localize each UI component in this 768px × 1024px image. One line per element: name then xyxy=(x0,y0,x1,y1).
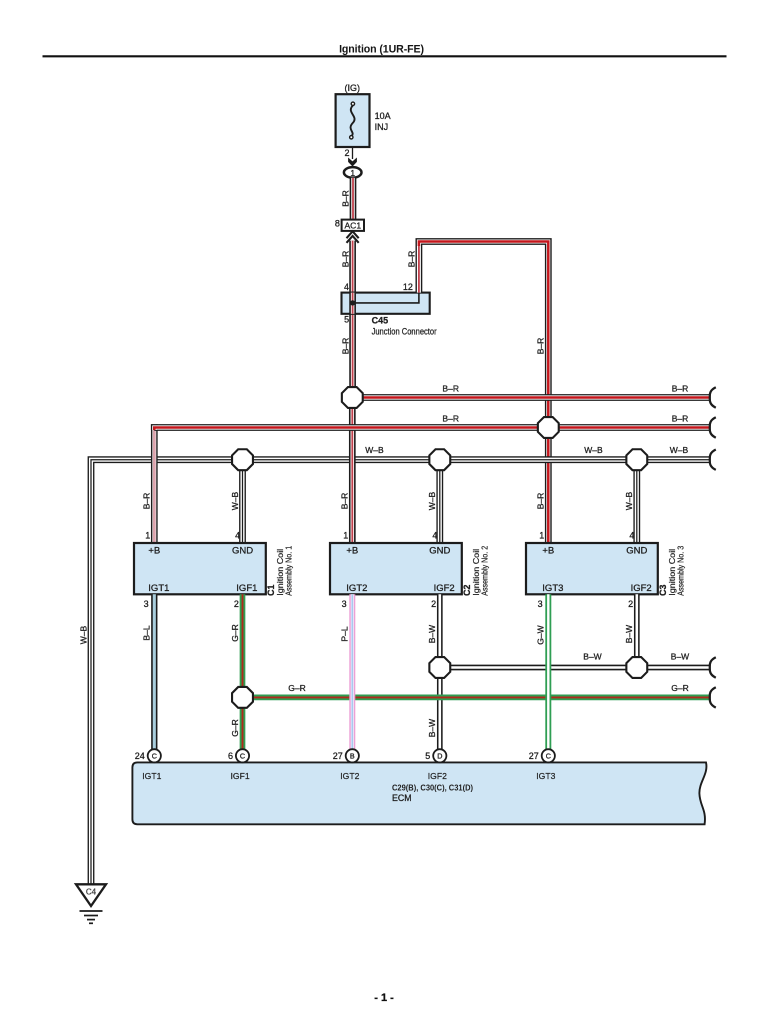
svg-text:INJ: INJ xyxy=(375,122,389,132)
wire: fuse to connector arrow xyxy=(352,147,354,159)
junction connector C45 box xyxy=(342,293,430,314)
svg-text:B–R: B–R xyxy=(340,190,350,207)
svg-text:W–B: W–B xyxy=(584,445,603,455)
svg-text:C: C xyxy=(152,752,157,761)
wire P-L: coil2 IGT2 to ECM xyxy=(349,594,355,749)
svg-text:GND: GND xyxy=(429,546,450,557)
svg-text:8: 8 xyxy=(335,218,340,228)
ECM pin 27 IGT2 xyxy=(346,749,359,762)
wire B-L: coil1 IGT1 to ECM xyxy=(151,594,157,749)
svg-text:4: 4 xyxy=(235,531,240,541)
svg-text:B–R: B–R xyxy=(406,251,416,268)
junction octagon W-B coil1 xyxy=(232,449,253,470)
svg-text:IGT1: IGT1 xyxy=(142,771,161,781)
svg-text:GND: GND xyxy=(626,546,647,557)
svg-text:B–W: B–W xyxy=(427,719,437,737)
svg-text:2: 2 xyxy=(234,599,239,609)
male connector arrow (down) xyxy=(348,158,357,167)
svg-text:27: 27 xyxy=(529,751,539,761)
wire B-R: top loop to coil 3 xyxy=(419,242,548,544)
svg-text:Assembly No. 3: Assembly No. 3 xyxy=(676,545,685,595)
svg-text:B–W: B–W xyxy=(427,625,437,643)
wire B-W: coil3 IGF2 stub xyxy=(634,594,640,667)
junction octagon B-W coil3 xyxy=(626,657,647,678)
wire B-R: connector to C45 pin 4 and on to junction xyxy=(349,241,356,398)
ground symbol xyxy=(80,910,103,912)
svg-text:G–R: G–R xyxy=(671,683,688,693)
svg-text:G–R: G–R xyxy=(230,719,240,736)
junction octagon W-B coil3 xyxy=(626,449,647,470)
svg-text:Assembly No. 2: Assembly No. 2 xyxy=(480,545,489,595)
svg-text:G–R: G–R xyxy=(230,624,240,641)
ECM pin 5 IGF2 xyxy=(433,749,446,762)
ignition coil assembly No. 2 box C2 xyxy=(330,543,462,594)
svg-text:+B: +B xyxy=(148,546,160,557)
junction octagon G-R xyxy=(232,687,253,708)
svg-text:B–R: B–R xyxy=(340,251,350,268)
connector oval 1 xyxy=(344,167,362,178)
svg-text:B–R: B–R xyxy=(340,338,350,355)
svg-text:C: C xyxy=(546,752,551,761)
svg-text:IGT3: IGT3 xyxy=(542,583,563,594)
svg-text:P–L: P–L xyxy=(340,626,350,641)
svg-text:(IG): (IG) xyxy=(345,83,361,93)
break mark bus2 xyxy=(710,417,716,437)
svg-text:5: 5 xyxy=(344,315,349,325)
female connector chevrons xyxy=(347,231,359,238)
wire G-W: coil3 IGT3 to ECM xyxy=(545,594,551,749)
svg-text:D: D xyxy=(437,752,442,761)
wire G-R: bus xyxy=(243,695,711,701)
wire B-W: bus xyxy=(440,665,711,671)
svg-text:G–R: G–R xyxy=(288,683,305,693)
wire B-W: coil2 IGF2 to ECM xyxy=(437,594,443,749)
ECM pin 24 IGT1 xyxy=(148,749,161,762)
svg-text:B–W: B–W xyxy=(671,652,689,662)
svg-text:C29(B), C30(C), C31(D): C29(B), C30(C), C31(D) xyxy=(392,782,473,792)
svg-text:1: 1 xyxy=(350,168,355,178)
svg-text:B–L: B–L xyxy=(142,625,152,640)
fuse element symbol xyxy=(351,105,355,135)
wire B-R inside C45 xyxy=(349,293,356,314)
ECM pin 6 IGF1 xyxy=(236,749,249,762)
junction octagon W-B coil2 xyxy=(429,449,450,470)
svg-text:W–B: W–B xyxy=(670,445,689,455)
svg-text:IGF2: IGF2 xyxy=(428,771,447,781)
svg-text:B–R: B–R xyxy=(442,383,459,393)
svg-text:W–B: W–B xyxy=(365,445,384,455)
svg-text:Assembly No. 1: Assembly No. 1 xyxy=(284,545,293,595)
svg-text:C: C xyxy=(240,752,245,761)
svg-text:IGT1: IGT1 xyxy=(148,583,169,594)
svg-text:IGF1: IGF1 xyxy=(236,583,257,594)
svg-text:GND: GND xyxy=(232,546,253,557)
svg-text:27: 27 xyxy=(333,751,343,761)
junction octagon B-W coil2 xyxy=(429,657,450,678)
wire G-R: coil1 IGF1 to ECM xyxy=(240,594,246,749)
svg-text:C4: C4 xyxy=(86,887,97,896)
svg-text:4: 4 xyxy=(432,531,437,541)
wire W-B: main ground run xyxy=(91,460,711,884)
svg-text:B–R: B–R xyxy=(536,338,546,355)
svg-text:IGF2: IGF2 xyxy=(434,583,455,594)
svg-text:IGT2: IGT2 xyxy=(340,771,359,781)
svg-text:3: 3 xyxy=(538,599,543,609)
ignition coil assembly No. 3 box C3 xyxy=(526,543,658,594)
svg-text:B–R: B–R xyxy=(442,413,459,423)
svg-text:2: 2 xyxy=(431,599,436,609)
svg-text:W–B: W–B xyxy=(79,625,89,644)
svg-text:+B: +B xyxy=(346,546,358,557)
break mark bus1 xyxy=(710,387,716,407)
svg-text:IGF2: IGF2 xyxy=(631,583,652,594)
wire B-R: drop to coil2 +B xyxy=(349,398,356,544)
wire B-R: bus 2 xyxy=(154,428,710,431)
svg-text:4: 4 xyxy=(629,531,634,541)
wire W-B: drop to coil1 GND xyxy=(239,460,246,543)
svg-text:3: 3 xyxy=(144,599,149,609)
svg-text:B–R: B–R xyxy=(340,493,350,510)
junction octagon bus1/coil2 xyxy=(342,387,363,408)
svg-text:Ignition (1UR-FE): Ignition (1UR-FE) xyxy=(339,43,424,55)
svg-text:2: 2 xyxy=(344,148,349,158)
junction box AC1 xyxy=(342,220,364,231)
wire B-R: C45 pin 12 riser xyxy=(419,242,548,544)
svg-text:B–R: B–R xyxy=(142,493,152,510)
svg-text:5: 5 xyxy=(425,751,430,761)
svg-text:ECM: ECM xyxy=(392,793,412,803)
svg-text:W–B: W–B xyxy=(624,491,634,510)
break mark B-W bus xyxy=(710,657,716,677)
svg-text:IGF1: IGF1 xyxy=(231,771,250,781)
svg-text:B–R: B–R xyxy=(536,493,546,510)
svg-text:2: 2 xyxy=(628,599,633,609)
svg-text:1: 1 xyxy=(539,531,544,541)
wire B-R: bus 1 xyxy=(352,394,710,401)
ECM box C29(B), C30(C), C31(D) xyxy=(132,762,706,824)
header rule xyxy=(43,55,727,57)
svg-text:IGT3: IGT3 xyxy=(536,771,555,781)
svg-text:B: B xyxy=(350,752,355,761)
svg-text:C2: C2 xyxy=(462,584,472,595)
svg-text:IGT2: IGT2 xyxy=(346,583,367,594)
svg-text:B–R: B–R xyxy=(672,413,689,423)
svg-text:C45: C45 xyxy=(372,315,389,325)
svg-text:C1: C1 xyxy=(266,584,276,595)
C45 internal branch xyxy=(353,293,419,303)
svg-text:10A: 10A xyxy=(375,111,391,121)
svg-text:- 1 -: - 1 - xyxy=(374,992,394,1004)
ECM pin 27 IGT3 xyxy=(542,749,555,762)
svg-text:12: 12 xyxy=(403,282,413,292)
svg-text:1: 1 xyxy=(343,531,348,541)
svg-text:3: 3 xyxy=(342,599,347,609)
fuse 10A INJ box xyxy=(336,94,370,147)
svg-text:G–W: G–W xyxy=(536,625,546,644)
wire W-B: drop to coil3 GND xyxy=(633,460,640,543)
svg-text:24: 24 xyxy=(135,751,145,761)
wire B-R: drop to coil1 +B xyxy=(151,424,158,543)
svg-text:C3: C3 xyxy=(658,584,668,595)
svg-text:W–B: W–B xyxy=(427,491,437,510)
break mark G-R bus xyxy=(710,687,716,707)
svg-text:B–R: B–R xyxy=(672,383,689,393)
svg-text:B–W: B–W xyxy=(624,625,634,643)
svg-text:B–W: B–W xyxy=(583,652,601,662)
svg-text:AC1: AC1 xyxy=(345,220,362,230)
ignition coil assembly No. 1 box C1 xyxy=(134,543,266,594)
svg-text:Junction Connector: Junction Connector xyxy=(372,326,437,336)
junction octagon bus2/coil3 xyxy=(538,417,559,438)
svg-text:1: 1 xyxy=(145,531,150,541)
wire B-R: oval to AC1 xyxy=(350,178,357,220)
svg-text:+B: +B xyxy=(542,546,554,557)
svg-text:4: 4 xyxy=(344,282,349,292)
break mark W-B bus xyxy=(710,450,716,470)
svg-text:W–B: W–B xyxy=(230,491,240,510)
svg-text:6: 6 xyxy=(228,751,233,761)
ground connector C4 triangle xyxy=(76,884,106,906)
wire W-B: drop to coil2 GND xyxy=(436,460,443,543)
